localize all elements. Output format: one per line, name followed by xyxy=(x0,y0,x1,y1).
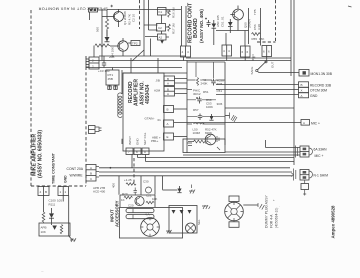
svg-text:DUMMY PLUG ASSY: DUMMY PLUG ASSY xyxy=(265,195,269,228)
wire input cluster xyxy=(120,195,155,207)
diode CR22 xyxy=(188,210,192,214)
text record cont board xyxy=(188,2,205,43)
connector record 33B xyxy=(299,82,332,88)
text center cluster row2 xyxy=(193,89,209,97)
diode CR52 xyxy=(209,114,213,120)
svg-text:FOR 4-A: FOR 4-A xyxy=(270,214,274,228)
connector mike amp edge xyxy=(86,165,99,182)
wire bottom-left cluster xyxy=(44,196,69,237)
node mark top right xyxy=(348,6,352,7)
svg-text:B: B xyxy=(167,108,169,112)
jack J21 xyxy=(186,223,196,233)
svg-text:...: ... xyxy=(41,269,44,273)
wire vertical top left xyxy=(101,10,103,61)
wire gnd line xyxy=(216,94,299,96)
svg-text:A: A xyxy=(303,121,305,125)
wire stubs record box top xyxy=(131,58,158,73)
connector small left xyxy=(89,126,102,134)
svg-text:30/6: 30/6 xyxy=(217,102,223,106)
svg-text:20B: 20B xyxy=(109,55,114,59)
input accessory cluster resistors xyxy=(122,192,157,201)
svg-text:MON1.3N 30B: MON1.3N 30B xyxy=(311,72,333,76)
text record amplifier xyxy=(128,79,151,106)
svg-text:SAFE: SAFE xyxy=(250,67,254,75)
box below N1 xyxy=(301,180,309,196)
svg-text:ACCESSORY: ACCESSORY xyxy=(115,200,120,227)
dashed line record cont board right xyxy=(275,0,277,42)
connector pin 2 below mike amp xyxy=(58,187,69,196)
wire Q1 to Q2 xyxy=(106,30,108,42)
wire bus vertical V1 xyxy=(290,0,292,76)
inductor L50 xyxy=(194,123,205,124)
connector pins below mike amp xyxy=(38,187,49,196)
connector P4 row xyxy=(262,46,272,57)
transistor Q2 xyxy=(110,38,128,56)
text record amp bottom pin names xyxy=(128,132,147,145)
svg-text:A5C 105: A5C 105 xyxy=(216,15,220,27)
wire otcm line xyxy=(216,89,299,91)
text Q1 labels xyxy=(123,11,136,25)
wire mid bus 4 xyxy=(138,157,295,159)
dashed enclosure mike preamp left xyxy=(30,10,32,186)
svg-text:4050434: 4050434 xyxy=(145,84,151,104)
text TP5 xyxy=(253,9,261,30)
text mike amplifier xyxy=(32,130,44,178)
connector monitor 30B xyxy=(299,70,333,77)
svg-text:C30: C30 xyxy=(143,180,149,184)
wire h108 xyxy=(225,107,294,109)
svg-text:C51 .01: C51 .01 xyxy=(221,16,225,27)
resistor R3 horizontal xyxy=(95,44,110,47)
svg-text:E: E xyxy=(167,135,169,139)
capacitor C3 xyxy=(98,61,110,74)
wire mic conn up xyxy=(93,46,95,58)
connector J1 top left xyxy=(89,8,108,20)
wire cluster top xyxy=(187,62,225,78)
svg-text:1K: 1K xyxy=(121,198,125,202)
resistor R1 xyxy=(105,19,108,30)
center cluster resistor R50 xyxy=(197,78,208,86)
resistor R108 vertical xyxy=(42,212,45,223)
resistor R16 xyxy=(168,7,176,18)
ground near center xyxy=(225,113,237,123)
svg-text:CONT 20A: CONT 20A xyxy=(67,167,84,171)
wire mic plus line xyxy=(174,122,301,124)
relay K1 box top center xyxy=(157,8,167,41)
diode below A2 xyxy=(160,40,164,43)
switch S1 safe/run xyxy=(250,55,275,75)
text Q50 labels xyxy=(244,19,252,28)
svg-text:C2: C2 xyxy=(158,26,162,30)
capacitor C55 xyxy=(205,18,211,27)
svg-text:B: B xyxy=(167,88,169,92)
wire mid bus 5 xyxy=(146,161,295,163)
connector mic plus xyxy=(301,120,320,126)
box bottom-left xyxy=(39,223,70,236)
text misc marks right bottom xyxy=(273,198,280,208)
transistor Q20 xyxy=(135,196,144,205)
svg-text:4-A: 4-A xyxy=(145,213,150,217)
svg-text:15K: 15K xyxy=(259,37,264,41)
capacitor before N1 xyxy=(292,169,296,181)
svg-text:C21: C21 xyxy=(146,194,152,198)
wire mid bus 8 xyxy=(99,175,292,177)
wire mid bus 1 xyxy=(266,147,301,149)
connector N1 xyxy=(300,170,328,181)
wire conn6 drop xyxy=(265,140,267,148)
wire mid bus 3 xyxy=(183,154,300,156)
svg-text:(ASSY NO. 6050433): (ASSY NO. 6050433) xyxy=(38,130,44,178)
wire y30 xyxy=(216,30,249,32)
wire top horizontal xyxy=(107,9,181,11)
svg-text:B: B xyxy=(167,77,169,81)
svg-text:K1: K1 xyxy=(159,10,163,14)
dashed line top center xyxy=(139,0,141,29)
ground upper input cluster xyxy=(202,205,210,209)
svg-text:MIC +: MIC + xyxy=(315,154,324,158)
svg-text:R51: R51 xyxy=(203,90,209,94)
transistor Q1 xyxy=(102,9,124,27)
box right sub cluster xyxy=(169,206,197,234)
capacitor C50 xyxy=(211,79,224,87)
svg-text:(4050634-10): (4050634-10) xyxy=(275,208,279,228)
svg-text:ACD 400: ACD 400 xyxy=(93,190,106,194)
wire vertical board edge 2 xyxy=(185,6,187,46)
wire K1 column stubs xyxy=(161,15,163,34)
node plus mark xyxy=(111,5,114,8)
svg-text:R17 1M: R17 1M xyxy=(172,23,176,34)
svg-text:R111: R111 xyxy=(49,203,56,207)
svg-text:C20: C20 xyxy=(128,204,134,208)
record amp cell 3 xyxy=(164,106,188,113)
resistor R21 xyxy=(146,201,154,203)
svg-text:OUT: OUT xyxy=(271,62,275,69)
svg-text:(ASSY NO. 405): (ASSY NO. 405) xyxy=(199,9,204,43)
svg-text:GND: GND xyxy=(310,94,318,98)
diode CR51 xyxy=(228,19,233,31)
svg-text:B: B xyxy=(301,83,303,87)
text 4CR cluster xyxy=(49,199,63,207)
transistor Q50 xyxy=(230,6,243,31)
svg-text:A2M: A2M xyxy=(154,89,161,93)
svg-text:Ampex 4890528: Ampex 4890528 xyxy=(331,205,336,239)
svg-text:TP2: TP2 xyxy=(132,42,138,46)
svg-text:APB: APB xyxy=(41,226,47,230)
svg-text:A: A xyxy=(90,166,92,170)
text C52 labels xyxy=(206,98,213,109)
jack box coax xyxy=(183,139,225,153)
svg-text:10K: 10K xyxy=(41,230,46,234)
svg-text:C51: C51 xyxy=(217,89,223,93)
text pin labels below mike xyxy=(93,186,106,194)
svg-text:01: 01 xyxy=(158,118,162,122)
diode CR50 xyxy=(212,20,217,31)
svg-text:GTAIN-: GTAIN- xyxy=(145,117,155,121)
record amp right edge cell J/B xyxy=(156,76,188,86)
svg-text:A2: A2 xyxy=(159,36,163,40)
wire bus H2 xyxy=(99,55,186,57)
svg-text:GND: GND xyxy=(136,138,140,146)
record amp cell 5 abe xyxy=(152,133,187,140)
svg-text:OTCM 30M: OTCM 30M xyxy=(310,89,327,93)
text input cluster labels xyxy=(121,198,134,208)
wire vertical center cluster right xyxy=(224,62,226,145)
wire vertical center cluster left xyxy=(186,61,188,154)
svg-text:TIME CONSTANT: TIME CONSTANT xyxy=(52,152,56,184)
svg-text:R55: R55 xyxy=(252,37,258,41)
connector otcm xyxy=(299,87,328,92)
svg-text:+1.25: +1.25 xyxy=(124,178,132,182)
resistor R17 xyxy=(168,23,176,34)
diode CR21 xyxy=(180,210,184,214)
wire dummy plug to ground xyxy=(243,204,258,206)
connector P3 row xyxy=(241,46,251,57)
svg-text:A: A xyxy=(167,92,169,96)
svg-text:400: 400 xyxy=(112,183,116,188)
jack dummy plug xyxy=(225,196,244,227)
svg-text:105: 105 xyxy=(57,199,62,203)
text dummy plug assy xyxy=(265,195,279,228)
svg-text:3.3K: 3.3K xyxy=(257,24,261,30)
wire record 33B line xyxy=(216,84,299,86)
wire bus H3 xyxy=(89,60,291,62)
svg-text:INPUT: INPUT xyxy=(128,136,132,145)
svg-text:A: A xyxy=(167,122,169,126)
resistor RT1 box xyxy=(106,68,119,90)
svg-text:100M: 100M xyxy=(193,131,201,135)
capacitor C54 xyxy=(198,114,202,121)
wire bus H4 xyxy=(86,67,182,69)
capacitor C52 xyxy=(196,97,202,104)
text input accessory xyxy=(110,200,120,227)
wire center cluster joins xyxy=(187,80,225,143)
wire mid bus 2 xyxy=(225,151,300,153)
connector 6A output xyxy=(300,146,327,158)
svg-text:GND: GND xyxy=(64,175,68,183)
svg-text:RUN: RUN xyxy=(251,55,255,62)
record amp right edge cell A2M xyxy=(154,87,187,97)
wire record pins to bus xyxy=(138,155,146,162)
ground dummy plug xyxy=(258,203,264,210)
record head L1 coil xyxy=(118,70,122,144)
wire vertical left board edge xyxy=(181,6,183,46)
svg-text:PB1+: PB1+ xyxy=(151,139,159,143)
wire top center joins xyxy=(144,11,169,37)
connector P1 bottom row xyxy=(181,46,191,57)
svg-text:Q1 2N508: Q1 2N508 xyxy=(123,11,127,25)
diode CR20 xyxy=(172,210,176,214)
svg-text:100K: 100K xyxy=(206,105,213,109)
wire vertical to bus xyxy=(145,37,158,57)
dashed wire below record amp xyxy=(133,158,135,184)
connector mic input xyxy=(86,57,99,69)
diode CR10 xyxy=(49,208,54,225)
diode near mid ground xyxy=(177,186,181,193)
wire bus H5 xyxy=(123,72,187,74)
test point TP2 box xyxy=(128,41,140,46)
svg-text:30/12: 30/12 xyxy=(193,92,201,96)
capacitor before conn6 xyxy=(296,146,298,158)
ground bottom-left cluster xyxy=(70,238,76,242)
resistor inside box xyxy=(60,225,62,234)
wire diagonal xyxy=(132,50,144,61)
wire mid bus 6 xyxy=(99,167,290,169)
connector gnd xyxy=(299,93,318,98)
wire stubs conn boxes xyxy=(184,56,267,61)
text L50 labels xyxy=(193,128,217,136)
svg-text:B: B xyxy=(90,171,92,175)
ground input cluster xyxy=(166,230,172,234)
oscillator Q51 xyxy=(205,134,219,145)
svg-text:SEL: SEL xyxy=(197,219,201,225)
svg-text:A: A xyxy=(167,82,169,86)
component row below bus xyxy=(112,176,178,195)
svg-text:R57: R57 xyxy=(193,108,199,112)
svg-text:R16 3M: R16 3M xyxy=(172,7,176,18)
connector P2 row xyxy=(222,45,232,56)
wire stub C3 junction xyxy=(103,56,105,61)
record amplifier board box xyxy=(123,73,164,151)
text center labels xyxy=(216,15,225,27)
jack J20 xyxy=(141,213,160,237)
capacitor C22 cylinder xyxy=(126,209,154,213)
svg-text:+: + xyxy=(273,198,275,202)
svg-text:C2 10: C2 10 xyxy=(132,14,136,22)
svg-text:45B: 45B xyxy=(108,77,113,81)
svg-text:560: 560 xyxy=(96,27,100,32)
resistor R56 xyxy=(194,140,205,143)
svg-text:240K: 240K xyxy=(201,82,208,86)
svg-text:30/6: 30/6 xyxy=(217,82,223,86)
dashed enclosure right side xyxy=(85,56,87,186)
record amp bottom pins xyxy=(126,148,149,155)
svg-text:X: X xyxy=(301,88,303,92)
wire monitor line xyxy=(259,72,299,74)
svg-text:B: B xyxy=(45,190,47,194)
svg-text:W/WIRE: W/WIRE xyxy=(70,174,84,178)
svg-text:6A 33AN: 6A 33AN xyxy=(314,148,328,152)
svg-text:SET CAL: SET CAL xyxy=(143,132,147,145)
dashed enclosure bottom xyxy=(31,185,86,187)
record amp cell 4 gain xyxy=(145,117,174,128)
diode inside box xyxy=(52,226,57,230)
svg-text:TP5: TP5 xyxy=(253,9,257,15)
wire mid bus 7 xyxy=(99,171,292,173)
wire vertical right cluster xyxy=(248,8,250,44)
capacitor C23 cylinder xyxy=(126,215,154,219)
svg-text:J/B: J/B xyxy=(156,79,160,83)
svg-text:RECORD 33B: RECORD 33B xyxy=(310,83,332,87)
svg-text:N-1 SHIM: N-1 SHIM xyxy=(314,174,329,178)
wire bus vertical V2 xyxy=(293,0,295,165)
resistor R55 xyxy=(252,33,265,41)
wire bus H2b xyxy=(186,57,291,59)
svg-text:A: A xyxy=(301,94,303,98)
svg-text:MIC +: MIC + xyxy=(311,122,320,126)
ground symbol mid page xyxy=(189,185,195,194)
wire top center verticals xyxy=(143,0,145,56)
diode CR1 xyxy=(105,30,110,42)
wire stubs down to connectors xyxy=(214,31,245,47)
box input accessory xyxy=(120,208,183,239)
